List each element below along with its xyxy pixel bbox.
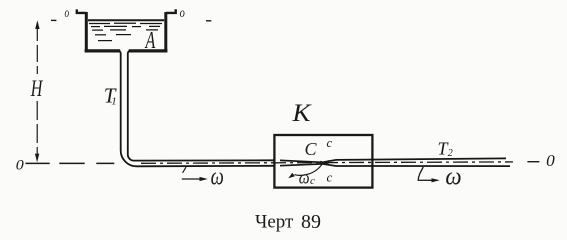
svg-text:H: H: [30, 76, 43, 101]
label T1: [104, 83, 117, 107]
svg-text:K: K: [291, 100, 311, 127]
wire: left omega leader tick: [183, 167, 186, 173]
svg-text:2: 2: [448, 148, 453, 159]
label omega_c: [299, 167, 315, 187]
datum 0-0 dashed line (left): [25, 162, 114, 164]
nozzle pinch (venturi) in box K: [280, 158, 510, 166]
dimension H line with arrows: [35, 20, 40, 162]
svg-text:0: 0: [546, 151, 555, 170]
svg-text:o: o: [65, 6, 70, 21]
tank walls: [77, 9, 176, 52]
svg-text:c: c: [327, 170, 333, 185]
svg-text:ω: ω: [445, 164, 461, 191]
arrow omega (left): [182, 177, 208, 181]
water hatching: [89, 23, 162, 40]
svg-text:ω: ω: [211, 164, 224, 191]
svg-text:o: o: [180, 6, 185, 21]
tank bottom: [85, 49, 168, 52]
svg-text:Черт: Черт: [255, 212, 294, 233]
node o (left datum label): [51, 6, 69, 21]
arrow omega_c leader: [288, 164, 322, 178]
svg-text:C: C: [305, 139, 318, 159]
pipe T1 (vertical): [118, 51, 274, 167]
node o (right datum label): [180, 6, 212, 21]
label T2: [438, 139, 453, 160]
svg-text:А: А: [144, 27, 156, 54]
svg-text:0: 0: [16, 158, 25, 174]
svg-text:c: c: [310, 175, 315, 187]
arrow omega (right) leader: [418, 167, 440, 182]
svg-text:1: 1: [111, 96, 117, 108]
box K: [274, 135, 372, 188]
pipe axis dash-dot centerline: [141, 162, 513, 163]
svg-text:c: c: [327, 135, 333, 150]
water surface: [88, 19, 164, 21]
svg-text:ω: ω: [299, 167, 310, 187]
svg-text:89: 89: [301, 211, 321, 233]
node C (pinch point blob): [320, 161, 329, 165]
datum 0 dash (right): [527, 161, 539, 163]
